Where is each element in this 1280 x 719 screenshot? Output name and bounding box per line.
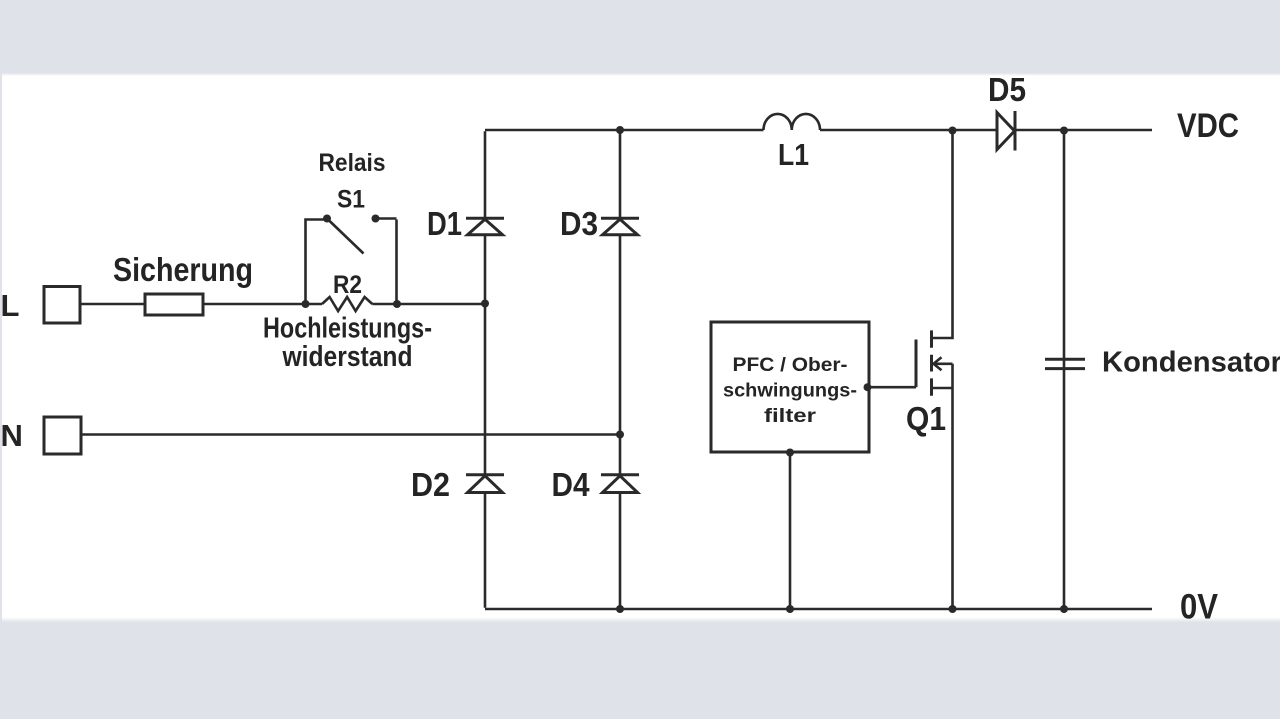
svg-text:Q1: Q1 [906, 400, 946, 437]
svg-text:Sicherung: Sicherung [113, 251, 253, 288]
svg-text:R2: R2 [333, 271, 362, 299]
svg-text:Kondensator: Kondensator [1102, 347, 1280, 379]
svg-text:D4: D4 [552, 466, 591, 503]
svg-text:L1: L1 [778, 137, 809, 172]
svg-text:Relais: Relais [319, 149, 386, 177]
svg-text:L: L [1, 288, 20, 323]
svg-text:N: N [1, 418, 23, 453]
svg-text:D1: D1 [427, 205, 462, 242]
svg-text:D3: D3 [560, 205, 598, 242]
svg-text:S1: S1 [337, 186, 365, 214]
svg-text:0V: 0V [1180, 588, 1219, 627]
svg-text:VDC: VDC [1177, 107, 1239, 145]
svg-text:D5: D5 [988, 71, 1026, 108]
svg-text:D2: D2 [411, 466, 450, 503]
svg-text:Hochleistungs-: Hochleistungs- [263, 313, 432, 345]
svg-text:filter: filter [764, 406, 817, 427]
svg-text:PFC / Ober-: PFC / Ober- [733, 355, 848, 376]
svg-text:widerstand: widerstand [282, 341, 413, 373]
svg-text:schwingungs-: schwingungs- [723, 381, 857, 402]
